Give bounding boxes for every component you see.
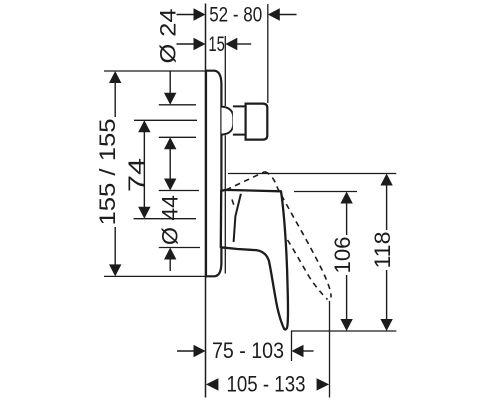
plate face line lower bbox=[224, 135, 226, 273]
svg-text:Ø 44: Ø 44 bbox=[157, 195, 182, 245]
dashed raised lever position: top edge bbox=[226, 172, 265, 190]
dimension 15 bbox=[177, 33, 252, 56]
plate face line (15 extension) upper bbox=[224, 36, 226, 106]
lever neck inner line bbox=[234, 194, 241, 242]
svg-text:Ø 24: Ø 24 bbox=[156, 8, 181, 63]
dimension 118 bbox=[370, 174, 395, 332]
extension line lever tip horizontal bbox=[291, 330, 396, 332]
svg-text:118: 118 bbox=[370, 232, 395, 269]
extension line plate top bbox=[104, 70, 206, 72]
stop knob bbox=[246, 104, 268, 140]
svg-text:155 / 155: 155 / 155 bbox=[95, 119, 120, 226]
tick diameter24 bottom bbox=[159, 136, 196, 138]
dashed raised lever position: front edge stub near pivot bbox=[232, 200, 235, 209]
dimension 105-133 bbox=[206, 372, 329, 397]
extension line 74 bottom bbox=[134, 218, 197, 220]
dimension 74 bbox=[124, 120, 151, 218]
dashed raised lever position: back curve to tip bbox=[265, 172, 332, 298]
escutcheon plate side profile bbox=[206, 71, 221, 277]
dashed raised lever position: front curve bbox=[288, 240, 328, 300]
dimension 75-103 bbox=[177, 338, 314, 363]
svg-text:106: 106 bbox=[330, 237, 355, 274]
extension line 74 top bbox=[134, 119, 197, 121]
extension line 118 top bbox=[228, 173, 396, 175]
svg-text:15: 15 bbox=[208, 33, 225, 56]
dimension 106 bbox=[330, 192, 355, 332]
lever handle (solid) bbox=[221, 190, 288, 330]
svg-text:74: 74 bbox=[124, 158, 149, 192]
cartridge small cylinder bbox=[233, 106, 246, 134]
svg-text:105 - 133: 105 - 133 bbox=[227, 372, 306, 397]
extension line 106 top bbox=[294, 191, 357, 193]
dimension 155/155 bbox=[95, 71, 122, 276]
tick diameter44 bottom bbox=[159, 247, 200, 249]
dimension diameter 44 bbox=[157, 195, 182, 271]
extension line lever tip vertical (75-103 right) bbox=[291, 331, 293, 361]
extension line knob right (52-80) bbox=[267, 4, 269, 103]
wall line bbox=[205, 4, 207, 398]
svg-text:52 - 80: 52 - 80 bbox=[209, 3, 262, 26]
extension line plate bottom bbox=[104, 275, 206, 277]
dimension 52-80 bbox=[177, 3, 297, 26]
cartridge collar bulge bbox=[222, 107, 234, 135]
tick diameter24 top bbox=[159, 104, 196, 106]
svg-text:75 - 103: 75 - 103 bbox=[212, 338, 284, 363]
dimension diameter 24 bbox=[156, 8, 181, 190]
extension line 105-133 right bbox=[329, 301, 331, 398]
tick diameter44 top bbox=[159, 190, 199, 192]
